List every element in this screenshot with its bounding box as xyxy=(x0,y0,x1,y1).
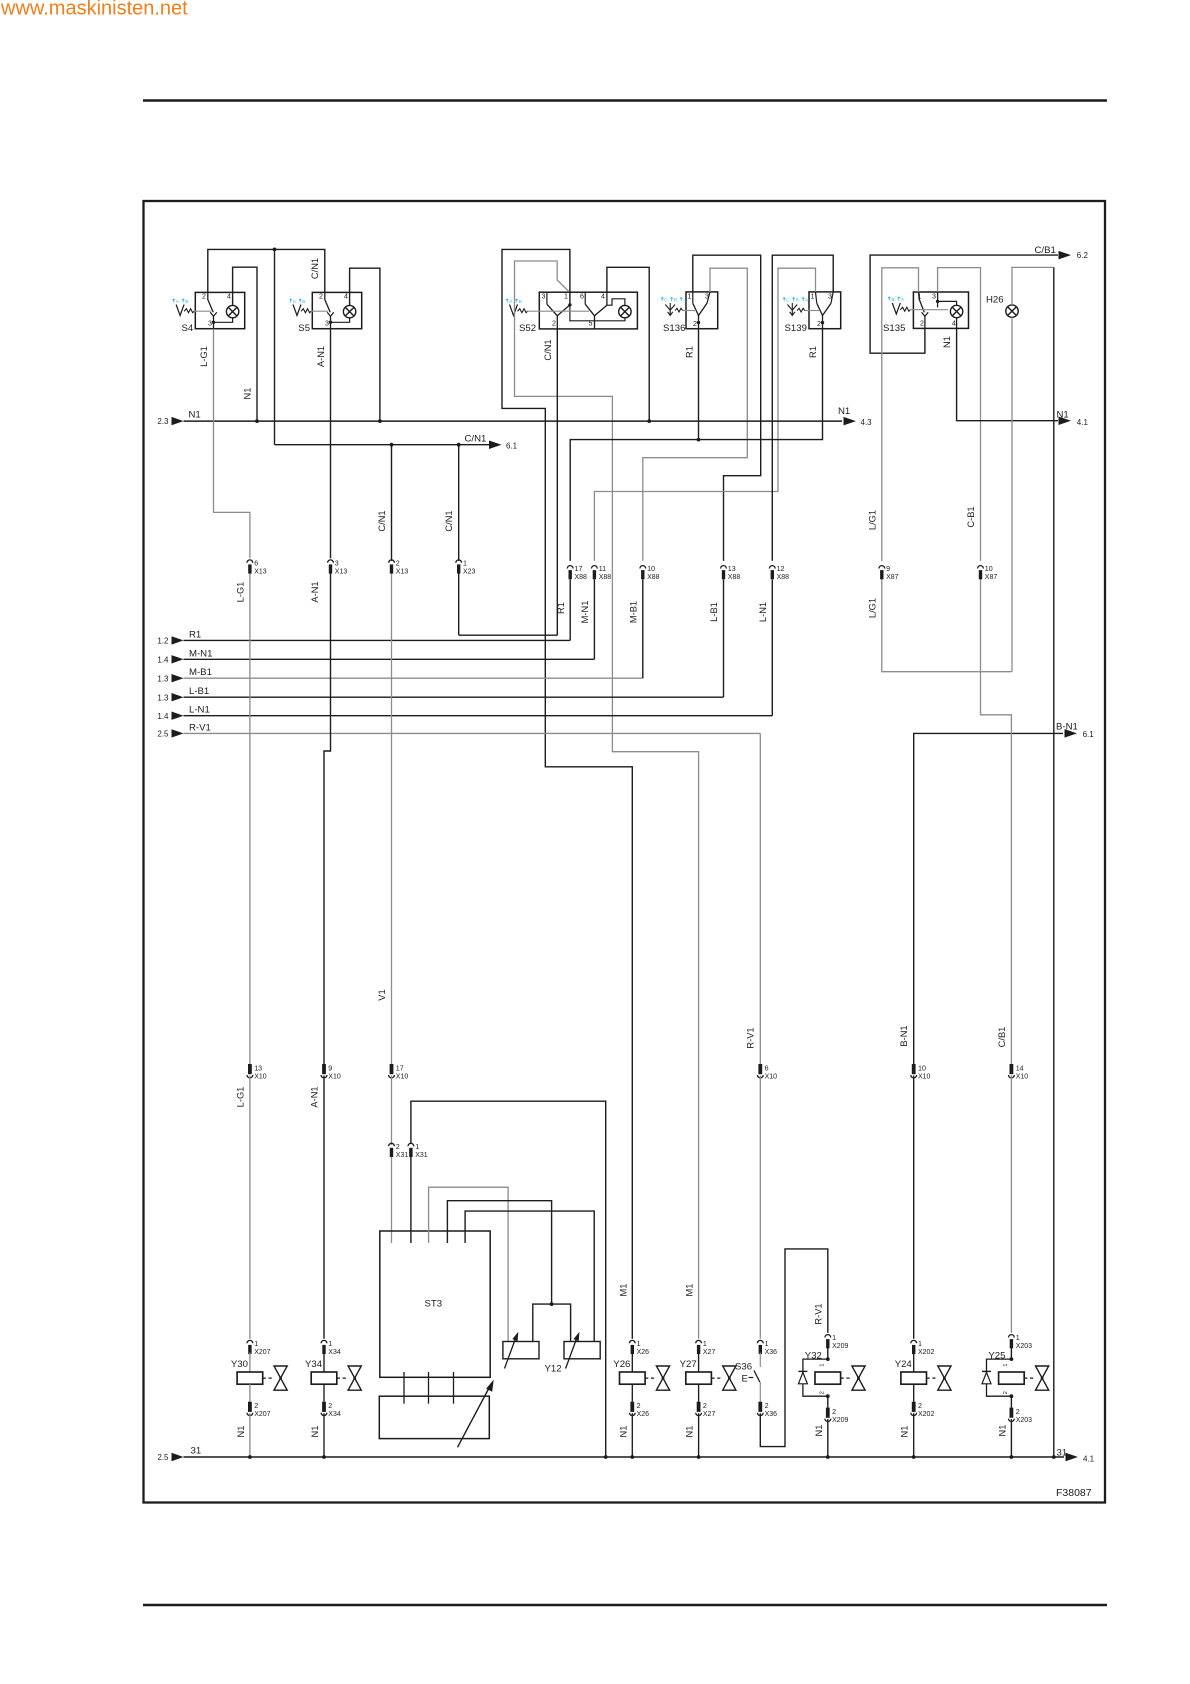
svg-text:N1: N1 xyxy=(838,406,850,417)
svg-text:L-N1: L-N1 xyxy=(189,705,210,716)
svg-text:X36: X36 xyxy=(765,1411,778,1418)
wire Y26 coil feed xyxy=(631,1353,633,1373)
svg-text:L-G1: L-G1 xyxy=(235,582,245,603)
svg-text:10: 10 xyxy=(918,1064,926,1072)
solenoid valve Y26 xyxy=(613,1359,656,1384)
svg-text:X31: X31 xyxy=(415,1152,428,1159)
switch S52 xyxy=(519,292,637,334)
wire C/B1 X10 to Y25 xyxy=(1010,1076,1012,1333)
svg-text:2: 2 xyxy=(920,320,924,328)
svg-text:L/G1: L/G1 xyxy=(868,598,878,618)
lamp in S4 xyxy=(226,305,238,317)
diode of Y25 xyxy=(982,1359,1011,1396)
connector X31 pin 1 xyxy=(408,1143,428,1159)
connector X27 pin 1 xyxy=(696,1340,716,1356)
svg-text:4: 4 xyxy=(601,292,605,300)
wire Y34 to connector xyxy=(323,1384,325,1402)
svg-text:1: 1 xyxy=(637,1340,641,1348)
wire Y24 coil feed xyxy=(913,1353,915,1373)
svg-text:2: 2 xyxy=(254,1402,258,1410)
svg-text:1: 1 xyxy=(1003,1364,1009,1367)
switch S36 xyxy=(735,1353,760,1402)
svg-text:3: 3 xyxy=(335,559,339,567)
svg-text:2: 2 xyxy=(765,1402,769,1410)
actuator of S135 xyxy=(892,303,910,314)
wire S52 lamp pin 4 to N1 xyxy=(607,267,649,421)
connector X209 pin 1 xyxy=(825,1334,849,1350)
svg-text:X88: X88 xyxy=(599,574,612,581)
svg-text:A-N1: A-N1 xyxy=(309,1086,319,1107)
wire S52 pin 1 top loop to M1 for Y26 xyxy=(502,249,632,1338)
svg-text:B: B xyxy=(519,299,522,304)
switch S136 xyxy=(663,292,718,334)
wire H26 top loop xyxy=(1012,267,1054,305)
valve symbol of Y30 xyxy=(274,1366,287,1390)
connector X13 pin 3 xyxy=(328,559,348,575)
svg-text:X26: X26 xyxy=(637,1411,650,1418)
wire Y34 coil feed xyxy=(323,1353,325,1373)
junction S52 lamp/N1 xyxy=(647,419,651,423)
connector X26 pin 2 xyxy=(629,1402,649,1418)
svg-text:Y24: Y24 xyxy=(895,1359,913,1370)
svg-text:C/N1: C/N1 xyxy=(543,339,553,360)
top rule xyxy=(143,99,1107,101)
svg-text:3: 3 xyxy=(542,292,546,300)
bus R-V1 from 2.5 xyxy=(157,722,760,738)
connector X209 pin 2 xyxy=(825,1408,849,1424)
connector X10 pin 10 xyxy=(911,1064,931,1080)
wire S4 lamp to pin 3 xyxy=(214,318,233,323)
svg-text:1: 1 xyxy=(918,1340,922,1348)
svg-text:H26: H26 xyxy=(986,295,1004,306)
wire S52 lamp to pin 1 xyxy=(570,305,625,321)
junction S4 lamp/N1 xyxy=(255,419,259,423)
wire ST3 to Y12 right xyxy=(465,1211,594,1341)
connector X203 pin 2 xyxy=(1009,1408,1033,1424)
node S135 pin 3 xyxy=(936,300,939,303)
svg-text:1: 1 xyxy=(765,1340,769,1348)
wire L-N1 riser to X88 xyxy=(771,580,773,716)
svg-text:2: 2 xyxy=(819,1391,825,1394)
junction S5 lamp/N1 xyxy=(378,419,382,423)
svg-text:X34: X34 xyxy=(328,1411,341,1418)
connector X23 pin 1 xyxy=(456,559,476,575)
connector X87 pin 9 xyxy=(879,565,899,581)
svg-text:2: 2 xyxy=(832,1408,836,1416)
ST3 lower module box xyxy=(379,1396,489,1438)
svg-text:L-G1: L-G1 xyxy=(235,1087,245,1108)
svg-text:4.1: 4.1 xyxy=(1083,1455,1095,1464)
svg-text:X10: X10 xyxy=(328,1073,341,1080)
svg-text:3: 3 xyxy=(932,292,936,300)
svg-text:X10: X10 xyxy=(1016,1073,1029,1080)
connector X10 pin 9 xyxy=(321,1064,341,1080)
connector X27 pin 2 xyxy=(696,1402,716,1418)
svg-text:N1: N1 xyxy=(243,388,253,400)
wire S136 pin 3 to M-B1 xyxy=(643,268,748,561)
wire Y25 to connector xyxy=(1010,1396,1012,1407)
svg-text:B: B xyxy=(302,299,305,304)
svg-text:2: 2 xyxy=(703,1402,707,1410)
lamp in S52 xyxy=(619,305,631,317)
svg-text:X27: X27 xyxy=(703,1411,716,1418)
junction C/N1/X13 xyxy=(390,443,394,447)
actuator of S4 xyxy=(176,305,194,316)
node S52 pin 1 xyxy=(568,303,571,306)
svg-text:N1: N1 xyxy=(189,410,201,421)
svg-text:M-B1: M-B1 xyxy=(189,667,212,678)
svg-text:3: 3 xyxy=(208,320,212,328)
valve symbol of Y34 xyxy=(348,1366,361,1390)
wire R-V1 X10 to S36 xyxy=(759,1076,761,1339)
svg-text:X88: X88 xyxy=(575,574,588,581)
svg-text:X202: X202 xyxy=(918,1411,934,1418)
svg-text:6: 6 xyxy=(254,559,258,567)
actuator of S136 xyxy=(665,303,696,315)
svg-text:X209: X209 xyxy=(832,1343,848,1350)
svg-text:1: 1 xyxy=(819,1364,825,1367)
svg-text:M1: M1 xyxy=(685,1284,695,1297)
wire M-N1 riser to X88 xyxy=(593,580,595,660)
junction Y30/bus 31 xyxy=(248,1455,252,1459)
svg-text:M-N1: M-N1 xyxy=(189,648,212,659)
svg-text:X207: X207 xyxy=(254,1349,270,1356)
svg-text:R1: R1 xyxy=(189,629,201,640)
wire H26 bottom to L/G1 xyxy=(1011,317,1013,671)
svg-text:4.1: 4.1 xyxy=(1077,418,1089,427)
bus M-B1 from 1.3 xyxy=(157,667,642,683)
svg-text:V1: V1 xyxy=(377,989,387,1000)
wire N1 S135 pin 4 to 4.1 xyxy=(942,328,1058,420)
valve symbol of Y25 xyxy=(1036,1366,1049,1390)
svg-text:R1: R1 xyxy=(684,346,694,358)
svg-text:N1: N1 xyxy=(685,1426,695,1438)
svg-text:9: 9 xyxy=(886,565,890,573)
arrow N1 to 4.1 xyxy=(1057,410,1089,427)
bus 31 xyxy=(157,1445,1094,1463)
svg-text:9: 9 xyxy=(328,1064,332,1072)
svg-text:S139: S139 xyxy=(785,323,807,334)
junction S136 pin2/R1 xyxy=(697,438,701,442)
coil of Y32 xyxy=(805,1350,852,1394)
svg-text:M1: M1 xyxy=(618,1284,628,1297)
connector X88 pin 12 xyxy=(769,565,789,581)
svg-text:6.1: 6.1 xyxy=(1083,730,1095,739)
svg-text:X88: X88 xyxy=(647,574,660,581)
svg-text:L-N1: L-N1 xyxy=(758,602,768,622)
wire Y32 to connector xyxy=(827,1396,829,1407)
svg-text:X23: X23 xyxy=(463,568,476,575)
connector X34 pin 2 xyxy=(321,1402,341,1418)
valve symbol of Y27 xyxy=(723,1366,736,1390)
wire A-N1 from S5 to X13 xyxy=(316,329,331,559)
junction X31 loop/bus 31 xyxy=(604,1455,608,1459)
svg-text:6: 6 xyxy=(765,1064,769,1072)
svg-text:11: 11 xyxy=(599,565,606,573)
wire L/G1 S135 pin 1 to connector X87 xyxy=(868,268,919,561)
svg-text:X87: X87 xyxy=(985,574,998,581)
svg-text:Y32: Y32 xyxy=(805,1350,822,1361)
svg-text:ST3: ST3 xyxy=(425,1299,443,1310)
bus C/N1 to 6.1 xyxy=(275,434,518,451)
svg-text:Y27: Y27 xyxy=(680,1359,697,1370)
connector X202 pin 2 xyxy=(911,1402,935,1418)
wire A-N1 X13 to X10 xyxy=(310,574,331,1065)
connector X36 pin 2 xyxy=(757,1402,777,1418)
wire R1 sub-bus S139 pin 2 xyxy=(570,329,822,561)
svg-text:R-V1: R-V1 xyxy=(813,1303,823,1324)
junction Y25/bus 31 xyxy=(1010,1455,1014,1459)
svg-text:A-N1: A-N1 xyxy=(316,346,326,367)
connector X10 pin 17 xyxy=(389,1064,409,1080)
junction Y32/bus 31 xyxy=(826,1455,830,1459)
connector X207 pin 2 xyxy=(247,1402,271,1418)
junction Y24/bus 31 xyxy=(912,1455,916,1459)
wire M-B1 riser to X88 xyxy=(642,580,644,679)
svg-text:2: 2 xyxy=(817,320,821,328)
svg-text:X203: X203 xyxy=(1016,1343,1032,1350)
wire V1 X10 to X31 xyxy=(391,1076,393,1146)
svg-text:X31: X31 xyxy=(396,1152,409,1159)
wire N1 from Y24 xyxy=(900,1413,914,1457)
svg-text:4.3: 4.3 xyxy=(861,418,873,427)
ST3 bottom pin stubs xyxy=(404,1372,454,1404)
svg-text:2: 2 xyxy=(552,320,556,328)
actuator of S5 xyxy=(293,305,311,316)
svg-text:6: 6 xyxy=(580,292,584,300)
actuator of S52 xyxy=(510,305,528,316)
switch S5 xyxy=(298,292,361,333)
switch S4 xyxy=(182,292,245,333)
svg-text:1: 1 xyxy=(688,292,692,300)
valve symbol of Y26 xyxy=(656,1366,669,1390)
svg-text:S136: S136 xyxy=(663,323,685,334)
coil of Y25 xyxy=(988,1350,1035,1394)
wire V1 X13 to X10 xyxy=(377,574,392,1065)
svg-text:13: 13 xyxy=(254,1064,262,1072)
svg-text:2: 2 xyxy=(693,320,697,328)
junction Y34/bus 31 xyxy=(322,1455,326,1459)
svg-text:X88: X88 xyxy=(728,574,741,581)
lamp in S5 xyxy=(343,305,355,317)
switch S139 xyxy=(785,292,841,334)
svg-text:2: 2 xyxy=(1003,1391,1009,1394)
switch S135 xyxy=(883,292,969,334)
svg-text:X36: X36 xyxy=(765,1349,778,1356)
svg-text:2: 2 xyxy=(1016,1408,1020,1416)
wire S139 pin 3 to L-N1 xyxy=(772,255,833,561)
svg-text:2: 2 xyxy=(396,1143,400,1151)
svg-text:N1: N1 xyxy=(1057,410,1069,421)
svg-text:X10: X10 xyxy=(918,1073,931,1080)
wire Y27 coil feed xyxy=(698,1353,700,1373)
connector X36 pin 1 xyxy=(757,1340,777,1356)
connector X31 pin 2 xyxy=(389,1143,409,1159)
bus R1 from 1.2 xyxy=(157,629,570,645)
svg-text:17: 17 xyxy=(575,565,583,573)
node S139 pin 2 xyxy=(821,321,824,324)
svg-text:10: 10 xyxy=(647,565,655,573)
actuator of S139 xyxy=(787,303,819,315)
wire ST3 to Y12 left xyxy=(429,1187,509,1341)
wire X31-2 into ST3 xyxy=(391,1157,393,1243)
wire N1 from Y34 xyxy=(310,1413,324,1457)
svg-text:X10: X10 xyxy=(396,1073,409,1080)
svg-text:C/N1: C/N1 xyxy=(377,510,387,531)
svg-text:2: 2 xyxy=(328,1402,332,1410)
arrow C/B1 to 6.2 xyxy=(1035,245,1089,260)
wire S135 lamp to pin 4 xyxy=(956,318,958,329)
node S5 pin 3 xyxy=(329,321,332,324)
svg-text:X34: X34 xyxy=(328,1349,341,1356)
svg-text:1.2: 1.2 xyxy=(157,637,169,646)
svg-text:M-N1: M-N1 xyxy=(580,601,590,624)
svg-text:4: 4 xyxy=(344,293,348,301)
node Y32 pin 2 xyxy=(826,1394,830,1398)
svg-text:Y34: Y34 xyxy=(305,1359,323,1370)
svg-text:N1: N1 xyxy=(618,1426,628,1438)
svg-text:R-V1: R-V1 xyxy=(189,722,211,733)
connector X26 pin 1 xyxy=(629,1340,649,1356)
diode of Y32 xyxy=(798,1359,827,1396)
svg-text:N1: N1 xyxy=(900,1426,910,1438)
svg-text:Y26: Y26 xyxy=(613,1359,630,1370)
wire A-N1 X10 to Y34 xyxy=(309,1076,324,1339)
svg-text:R-V1: R-V1 xyxy=(746,1027,756,1048)
svg-text:B: B xyxy=(891,297,894,302)
svg-text:X87: X87 xyxy=(886,574,899,581)
svg-text:4: 4 xyxy=(227,293,231,301)
bus L-N1 from 1.4 xyxy=(157,705,772,721)
wire N1 from Y30 xyxy=(236,1413,250,1457)
potentiometer Y12 right element xyxy=(564,1342,600,1359)
connector X88 pin 17 xyxy=(567,565,587,581)
wire S5 lamp to pin 3 xyxy=(331,318,350,323)
svg-text:2: 2 xyxy=(396,559,400,567)
svg-text:L-B1: L-B1 xyxy=(709,602,719,622)
wire L-G1 from S4 to X13 xyxy=(199,329,250,559)
svg-text:B-N1: B-N1 xyxy=(899,1025,909,1046)
svg-text:L/G1: L/G1 xyxy=(868,510,878,530)
svg-text:S36: S36 xyxy=(735,1361,752,1372)
junction right return/bus 31 xyxy=(1052,1455,1056,1459)
bus L-B1 from 1.3 xyxy=(157,686,723,702)
svg-text:1.4: 1.4 xyxy=(157,655,169,664)
connector X202 pin 1 xyxy=(911,1340,935,1356)
svg-text:X207: X207 xyxy=(254,1411,270,1418)
svg-text:X203: X203 xyxy=(1016,1417,1032,1424)
wire S4 lamp to N1 xyxy=(233,267,257,421)
wire N1 from Y32 xyxy=(814,1419,828,1457)
solenoid valve Y30 xyxy=(231,1359,274,1384)
connector X13 pin 6 xyxy=(247,559,267,575)
junction bridge/ST3 xyxy=(550,1302,554,1306)
svg-text:1.4: 1.4 xyxy=(157,712,169,721)
wire to Y25 pin 1 xyxy=(1010,1347,1012,1359)
wire ST3 to Y12 wiper bridge xyxy=(447,1201,551,1304)
svg-text:4: 4 xyxy=(952,320,956,328)
wire S5 lamp to N1 xyxy=(350,268,380,421)
svg-text:A-N1: A-N1 xyxy=(310,581,320,602)
svg-text:Y25: Y25 xyxy=(988,1350,1005,1361)
svg-text:17: 17 xyxy=(396,1064,404,1072)
svg-text:X13: X13 xyxy=(396,568,409,575)
svg-text:6.2: 6.2 xyxy=(1077,251,1089,260)
connector X87 pin 10 xyxy=(978,565,998,581)
svg-text:X209: X209 xyxy=(832,1417,848,1424)
schematic frame xyxy=(144,201,1106,1503)
svg-text:B-N1: B-N1 xyxy=(1056,721,1078,732)
connector X88 pin 10 xyxy=(640,565,660,581)
svg-text:6.1: 6.1 xyxy=(506,442,518,451)
svg-text:B: B xyxy=(185,299,188,304)
node Y25 pin 1 xyxy=(1010,1357,1014,1361)
bus M-N1 from 1.4 xyxy=(157,648,594,664)
wire Y26 to connector xyxy=(631,1384,633,1402)
svg-text:C/B1: C/B1 xyxy=(1035,245,1056,256)
junction Y26/bus 31 xyxy=(630,1455,634,1459)
wire Y30 to connector xyxy=(249,1384,251,1402)
junction Y27/bus 31 xyxy=(697,1455,701,1459)
svg-text:31: 31 xyxy=(1057,1447,1068,1458)
wire S52 actuator contact to M1 for Y27 xyxy=(515,261,699,1339)
connector X10 pin 14 xyxy=(1009,1064,1029,1080)
svg-text:C/N1: C/N1 xyxy=(444,510,454,531)
svg-text:X10: X10 xyxy=(254,1073,267,1080)
wire 31 return right side xyxy=(1053,267,1055,1457)
node Y32 pin 1 xyxy=(826,1357,830,1361)
svg-text:R1: R1 xyxy=(556,602,566,614)
svg-text:Y12: Y12 xyxy=(545,1363,562,1374)
wire C/N1 to connector X23 pin 1 xyxy=(444,445,459,561)
wiper arrow Y12 left xyxy=(505,1332,519,1369)
wire C/N1 to connector X13 pin 2 xyxy=(377,445,392,561)
bottom rule xyxy=(143,1604,1107,1606)
svg-text:2: 2 xyxy=(202,293,206,301)
svg-text:S135: S135 xyxy=(883,323,905,334)
wire R1 S136 pin 2 drop xyxy=(684,329,698,440)
junction C/N1/X23 xyxy=(457,443,461,447)
wire C/B1 X87 to X10 xyxy=(981,575,1012,1065)
svg-text:2.5: 2.5 xyxy=(157,1453,169,1462)
wire R-V1 drop to X10 xyxy=(746,733,761,1064)
svg-text:C/B1: C/B1 xyxy=(997,1027,1007,1048)
svg-text:1: 1 xyxy=(564,292,568,300)
wire S139 pin 1 to M-N1 xyxy=(594,268,815,561)
wire S36 to Y32 loop xyxy=(760,1249,828,1447)
valve symbol of Y24 xyxy=(938,1366,951,1390)
svg-text:13: 13 xyxy=(728,565,736,573)
control unit ST3 xyxy=(380,1231,490,1377)
svg-text:E: E xyxy=(742,1374,748,1385)
svg-text:S52: S52 xyxy=(519,323,536,334)
lamp in S135 xyxy=(950,305,962,317)
connector X13 pin 2 xyxy=(389,559,409,575)
node S136 pin 2 xyxy=(697,321,700,324)
wire L-G1 X10 to Y30 xyxy=(235,1076,250,1339)
wire Y30 coil feed xyxy=(249,1353,251,1373)
svg-text:1.3: 1.3 xyxy=(157,674,169,683)
wire L-G1 X13 to X10 xyxy=(235,574,250,1065)
svg-text:2: 2 xyxy=(319,293,323,301)
potentiometer Y12 left element xyxy=(503,1342,539,1359)
svg-text:X88: X88 xyxy=(777,574,790,581)
svg-text:S5: S5 xyxy=(298,323,310,334)
svg-text:1: 1 xyxy=(703,1340,707,1348)
wiper arrow Y12 right xyxy=(566,1332,580,1369)
svg-text:L-B1: L-B1 xyxy=(189,686,209,697)
bus N1 xyxy=(157,406,872,427)
